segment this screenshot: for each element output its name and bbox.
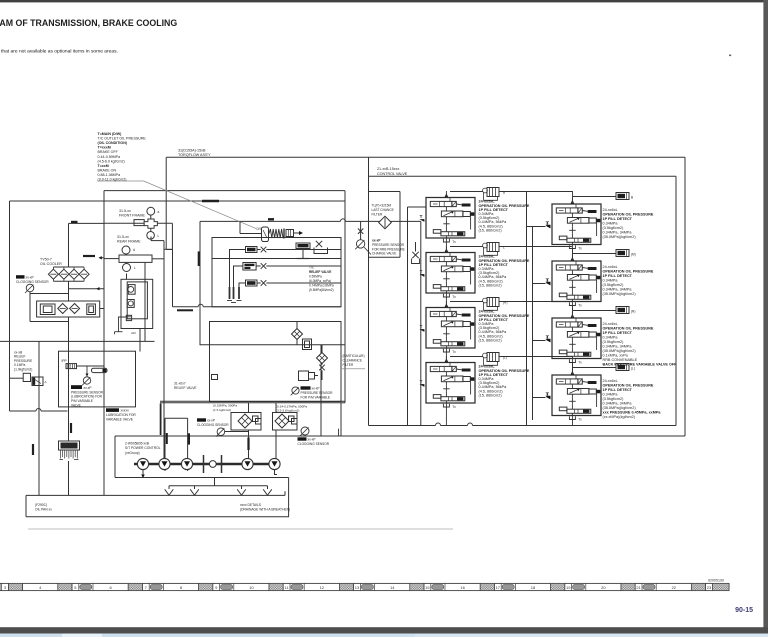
- pump P5 drain: [275, 470, 278, 475]
- svg-text:0.34MPa, 34MPa: 0.34MPa, 34MPa: [603, 402, 633, 406]
- svg-text:OPERATION OIL PRESSURE: OPERATION OIL PRESSURE: [603, 327, 654, 331]
- svg-text:T: T: [547, 277, 550, 282]
- inter-module drain: [572, 363, 574, 376]
- relief feed stub: [239, 221, 241, 233]
- arrow stub on main line: [101, 257, 104, 259]
- control valve inner top edge: [369, 175, 677, 177]
- supply header to rail: [450, 191, 487, 193]
- module supply arrow: [445, 358, 449, 362]
- svg-text:PRESSURE SENSOR: PRESSURE SENSOR: [301, 391, 334, 395]
- svg-text:T: T: [420, 324, 423, 329]
- svg-text:13: 13: [355, 585, 360, 590]
- tank funnel: [241, 486, 243, 489]
- rail tie: [533, 340, 546, 342]
- rail tie: [533, 397, 546, 399]
- svg-text:90-15: 90-15: [735, 607, 753, 614]
- clearance filter box: [210, 322, 342, 402]
- lubrication sensor box: [59, 351, 136, 407]
- svg-text:(15, 860/cm2): (15, 860/cm2): [479, 283, 503, 287]
- relief valve: [23, 373, 30, 381]
- section mark vertical: [70, 423, 72, 433]
- charge pressure gauge: [356, 240, 364, 248]
- module internal top feed: [575, 318, 577, 322]
- tank funnel: [267, 486, 269, 489]
- pump P3: [181, 458, 192, 469]
- module L4 drain to box bottom: [445, 407, 447, 426]
- supply header to rail: [450, 301, 487, 303]
- relief adjuster: [286, 230, 294, 237]
- left outer box: left edge: [9, 201, 11, 411]
- pilot damper/accumulator (inline): [483, 298, 488, 303]
- svg-text:OPERATION OIL PRESSURE: OPERATION OIL PRESSURE: [603, 384, 654, 388]
- charge sensor valve: [358, 229, 363, 234]
- svg-text:12: 12: [320, 585, 325, 590]
- supply header to rail: [450, 356, 487, 358]
- wire: rear frame feed: [104, 258, 119, 260]
- snubber cylinder: [92, 368, 108, 372]
- solenoid block: [299, 371, 309, 381]
- svg-text:(L): (L): [503, 356, 507, 360]
- pilot box left edge x200: [199, 221, 201, 345]
- svg-text:31.5-xx: 31.5-xx: [117, 235, 129, 239]
- svg-text:(3.5kgf/cm2): (3.5kgf/cm2): [603, 283, 625, 287]
- module drain bracket: [443, 349, 449, 352]
- svg-text:(PARTICULAR): (PARTICULAR): [343, 354, 365, 358]
- svg-text:FILTER: FILTER: [372, 213, 383, 217]
- shutoff valve with bracket: [316, 241, 322, 247]
- svg-text:(M): (M): [631, 253, 636, 257]
- control valve box left edge: [368, 157, 370, 425]
- pump P5: [269, 458, 280, 469]
- svg-text:14: 14: [390, 585, 395, 590]
- riser joins left header: [572, 362, 574, 368]
- pump P2 enclosure box: [165, 417, 188, 419]
- line priority to ipp box: [139, 329, 141, 352]
- drain check with bracket: [415, 242, 417, 252]
- svg-text:T: T: [547, 334, 550, 339]
- pump P4: [242, 458, 253, 469]
- rear frame drain link: [152, 258, 164, 260]
- section mark: [188, 433, 190, 444]
- svg-text:OIL COOLER: OIL COOLER: [40, 262, 62, 266]
- pilot sub box: [212, 238, 341, 307]
- svg-text:T=xxM: T=xxM: [98, 164, 109, 168]
- module drain bracket: [569, 245, 575, 248]
- svg-text:B: B: [631, 196, 633, 200]
- svg-text:1P FILL DETECT: 1P FILL DETECT: [603, 217, 633, 221]
- leader polyline from note block: [98, 181, 257, 229]
- riser joins left header: [572, 305, 574, 311]
- wire crossover hump: [436, 423, 441, 426]
- svg-text:(R): (R): [631, 310, 635, 314]
- top window bar: [0, 0, 768, 2]
- svg-text:FOR P/M VARIABLE: FOR P/M VARIABLE: [301, 396, 331, 400]
- svg-text:(1.5 kgf/cm2): (1.5 kgf/cm2): [213, 408, 231, 412]
- supply header to damper: [573, 253, 617, 255]
- svg-text:(LUBRICATION) FOR: (LUBRICATION) FOR: [71, 395, 103, 399]
- tank funnel: [194, 486, 196, 489]
- svg-text:(OIL CONDITION): (OIL CONDITION): [98, 141, 128, 145]
- svg-text:(xxGroup): (xxGroup): [125, 451, 140, 455]
- sensor junction lines: [29, 292, 31, 294]
- clearance filter drop x321: [320, 345, 322, 436]
- svg-text:RAM OF TRANSMISSION, BRAKE COO: RAM OF TRANSMISSION, BRAKE COOLING: [0, 18, 177, 28]
- bottom taskbar strip: [0, 634, 768, 637]
- svg-text:CLEARANCE: CLEARANCE: [343, 359, 363, 363]
- svg-text:T=xxxM: T=xxxM: [98, 146, 111, 150]
- section mark y310: [177, 309, 193, 311]
- svg-text:L: L: [134, 266, 136, 270]
- control valve outer right edge: [684, 157, 686, 436]
- svg-text:FILTER: FILTER: [343, 363, 354, 367]
- rail tie row1: [527, 226, 533, 228]
- svg-text:23: 23: [707, 585, 712, 590]
- svg-text:FRONT FRAME: FRONT FRAME: [119, 214, 145, 218]
- pilot damper/accumulator (inline): [483, 243, 488, 248]
- svg-text:TY50-7: TY50-7: [40, 258, 52, 262]
- svg-text:LUBRICATION FOR: LUBRICATION FOR: [106, 413, 136, 417]
- svg-text:a: a: [158, 210, 160, 214]
- priority valve element 1: [128, 285, 135, 295]
- svg-text:24-xx6xL: 24-xx6xL: [603, 379, 618, 383]
- priority valve element 2: [127, 300, 134, 308]
- svg-text:T: T: [420, 379, 423, 384]
- control valve inner right edge: [675, 176, 677, 425]
- torqflow supply drop x166: [165, 157, 167, 249]
- svg-text:0.34MPa: 0.34MPa: [603, 222, 619, 226]
- svg-text:CLOGGING SENSOR: CLOGGING SENSOR: [16, 280, 49, 284]
- module internal top feed: [575, 204, 577, 208]
- strainer drop x68.5: [68, 281, 70, 301]
- drawing scale ruler: [0, 583, 729, 590]
- svg-text:A: A: [45, 380, 47, 384]
- priority valve drain: [119, 317, 127, 332]
- module internal top feed: [575, 261, 577, 265]
- module drain bracket: [443, 239, 449, 242]
- vertical line x164 (front frame drain): [163, 241, 165, 459]
- section mark: [83, 255, 95, 257]
- svg-text:(35.0MPa)(kgf/cm2): (35.0MPa)(kgf/cm2): [603, 235, 637, 239]
- module supply arrow: [445, 248, 449, 252]
- module supply arrow: [571, 200, 575, 204]
- riser joins left header: [572, 248, 574, 254]
- svg-text:(15, 860/cm2): (15, 860/cm2): [479, 228, 503, 232]
- wire: pilot rail top line y221: [200, 220, 340, 222]
- module drain bracket: [443, 404, 449, 407]
- svg-text:2-W905B05-xxB: 2-W905B05-xxB: [125, 442, 150, 446]
- mid rail B x532.5: [532, 227, 534, 421]
- svg-text:0.34MPa: 0.34MPa: [603, 336, 619, 340]
- valve module module L2: [426, 253, 475, 294]
- pilot damper/accumulator: [616, 250, 629, 257]
- svg-text:LAST CHANCE: LAST CHANCE: [372, 208, 394, 212]
- front frame drain link: [150, 237, 152, 241]
- scan speck: [729, 55, 731, 57]
- svg-text:xxxx DETAILS: xxxx DETAILS: [240, 503, 262, 507]
- right scrollbar strip: [763, 0, 768, 632]
- svg-text:(3.5-3.8 kgf/cm2): (3.5-3.8 kgf/cm2): [276, 408, 299, 412]
- svg-text:(4.5-6.0 kgf/cm2): (4.5-6.0 kgf/cm2): [98, 159, 125, 163]
- bottom dark bar: [0, 627, 768, 633]
- svg-text:(3.5kgf/cm2): (3.5kgf/cm2): [603, 340, 625, 344]
- svg-text:BACK PRESSURE VARIABLE VALVE O: BACK PRESSURE VARIABLE VALVE OFF: [603, 363, 678, 367]
- svg-text:RRB CONVENABLE: RRB CONVENABLE: [603, 358, 638, 362]
- svg-text:Tx: Tx: [452, 405, 456, 409]
- svg-text:RELIEF VALVE: RELIEF VALVE: [309, 270, 331, 274]
- svg-text:24-xx6xL: 24-xx6xL: [603, 265, 618, 269]
- inter-module drain: [572, 249, 574, 262]
- svg-text:(DRAINAGE WITH A BREATHER): (DRAINAGE WITH A BREATHER): [240, 508, 290, 512]
- svg-text:BRAKE OFF: BRAKE OFF: [98, 150, 119, 154]
- svg-text:T: T: [420, 214, 423, 219]
- valve module module R3: [552, 318, 601, 359]
- svg-text:TL(P)+3215M: TL(P)+3215M: [372, 204, 392, 208]
- priority valve element 3: [126, 315, 131, 320]
- clogging sensor label (cooler): [16, 275, 25, 278]
- svg-text:that are not available as opti: that are not available as optional items…: [1, 49, 118, 55]
- middle box right edge x345: [344, 191, 346, 403]
- pilot damper/accumulator (inline): [483, 353, 488, 358]
- tank funnel: [168, 486, 170, 489]
- svg-text:(3.5kgf/cm2): (3.5kgf/cm2): [603, 397, 625, 401]
- svg-text:VALVE: VALVE: [71, 404, 81, 408]
- port label box 3: [246, 280, 258, 286]
- engine coupling: [203, 455, 205, 473]
- collector line y341.4: [0, 340, 155, 342]
- supply header to damper: [573, 310, 617, 312]
- svg-text:21: 21: [636, 585, 641, 590]
- svg-text:Tx: Tx: [578, 360, 582, 364]
- svg-text:(6.0MPa, xxPa): (6.0MPa, xxPa): [309, 279, 331, 283]
- module internal top feed: [449, 253, 451, 257]
- svg-text:OPERATION OIL PRESSURE: OPERATION OIL PRESSURE: [603, 270, 654, 274]
- svg-text:xx-xP: xx-xP: [372, 239, 381, 243]
- section mark vertical: [32, 444, 34, 455]
- svg-text:(9.0-11.0 kgf/cm2): (9.0-11.0 kgf/cm2): [98, 178, 127, 182]
- rear frame brake assembly: [122, 246, 130, 254]
- svg-text:31(D155A)-15xB: 31(D155A)-15xB: [178, 149, 206, 153]
- svg-text:T: T: [547, 220, 550, 225]
- supply header to rail: [450, 246, 487, 248]
- svg-text:1P FILL DETECT: 1P FILL DETECT: [603, 331, 633, 335]
- relief feed line: [240, 233, 262, 235]
- wire: control valve outer box bottom: [321, 435, 685, 437]
- svg-text:(15, 860/cm2): (15, 860/cm2): [479, 393, 503, 397]
- valve module module R4: [552, 375, 601, 416]
- cooler feed line from front-frame branch: [69, 222, 105, 224]
- wire: control valve inner box bottom: [369, 425, 436, 427]
- svg-text:22: 22: [672, 585, 677, 590]
- svg-text:(3.5kgf/cm2): (3.5kgf/cm2): [603, 226, 625, 230]
- module drain bracket: [443, 294, 449, 297]
- relief spring: [269, 229, 284, 238]
- filter risers: [248, 403, 250, 413]
- section mark y219: [268, 218, 274, 220]
- vertical line x172.5: [172, 249, 174, 306]
- small block in clearance box: [212, 375, 218, 380]
- svg-text:(5.5MPa(84/cm2): (5.5MPa(84/cm2): [309, 288, 334, 292]
- svg-text:0.34MPa: 0.34MPa: [603, 279, 619, 283]
- svg-text:1P FILL DETECT: 1P FILL DETECT: [603, 274, 633, 278]
- section mark above cooler feed: [71, 221, 78, 223]
- valve module module R2: [552, 261, 601, 302]
- oil pan outline: [25, 495, 27, 516]
- main filter 2 box: [273, 413, 298, 431]
- svg-text:REAR FRAME: REAR FRAME: [117, 240, 141, 244]
- module supply arrow: [445, 303, 449, 307]
- svg-text:S/T POWER CONTROL: S/T POWER CONTROL: [125, 446, 161, 450]
- clogging sensor gauge: [26, 284, 34, 292]
- svg-text:20: 20: [601, 585, 606, 590]
- drain manifold: [169, 485, 268, 487]
- oil pan right edge: [288, 478, 290, 517]
- module drain bracket: [569, 359, 575, 362]
- svg-text:TORQFLOW ASS'Y: TORQFLOW ASS'Y: [178, 153, 211, 157]
- svg-text:(R): (R): [503, 301, 507, 305]
- svg-text:92005190: 92005190: [708, 579, 724, 583]
- svg-text:T=MAIN (D/W): T=MAIN (D/W): [98, 132, 123, 136]
- inter-module drain: [445, 297, 447, 308]
- svg-text:(15, 860/cm2): (15, 860/cm2): [479, 338, 503, 342]
- section mark on left box top line: [202, 200, 219, 203]
- left rail x420.8: [420, 221, 422, 425]
- charge sensor stem: [360, 221, 362, 239]
- module supply arrow: [571, 371, 575, 375]
- svg-text:T/C: T/C: [309, 266, 315, 270]
- svg-text:24-xx6xL: 24-xx6xL: [603, 322, 618, 326]
- svg-text:T: T: [420, 269, 423, 274]
- svg-text:0.34MPa, 34MPa: 0.34MPa, 34MPa: [603, 231, 633, 235]
- clearance filter 1: [292, 329, 303, 340]
- test port plug: [296, 243, 310, 249]
- drain line x39 to pan: [38, 341, 40, 495]
- pump P2: [159, 458, 170, 469]
- faint base line: [28, 528, 453, 530]
- supply header to damper: [573, 367, 617, 369]
- svg-text:Tx: Tx: [578, 417, 582, 421]
- wire: clearance filter line y345: [200, 344, 345, 346]
- svg-text:31.5-xx: 31.5-xx: [119, 209, 131, 213]
- pump P1: [137, 458, 148, 469]
- svg-text:xxx PRESSURE 0.45MPa, xxMPa: xxx PRESSURE 0.45MPa, xxMPa: [603, 411, 662, 415]
- svg-text:T: T: [547, 391, 550, 396]
- left outer box: bottom edge with crossover: [10, 410, 37, 412]
- svg-text:(F290C): (F290C): [35, 503, 47, 507]
- module drain bracket: [569, 302, 575, 305]
- last chance filter sub box: [369, 191, 401, 193]
- wire: middle box top edge: [104, 190, 345, 192]
- module internal top feed: [449, 198, 451, 202]
- svg-text:0.34MPa: 0.34MPa: [603, 393, 619, 397]
- riser joins left header: [572, 191, 574, 197]
- wire crossover hump: [198, 304, 203, 307]
- pump P1 drain: [142, 470, 144, 476]
- svg-text:OPERATION OIL PRESSURE: OPERATION OIL PRESSURE: [603, 213, 654, 217]
- oil pan top edge: [26, 494, 285, 496]
- svg-text:Tx: Tx: [452, 240, 456, 244]
- clearance filter 2: [317, 353, 328, 364]
- valve module module L4: [426, 363, 475, 404]
- wire: y306 line with valves: [173, 306, 199, 308]
- wire crossover hump: [341, 219, 346, 222]
- wire: feed drop to thermo line: [171, 223, 173, 249]
- svg-text:CLOGGING SENSOR: CLOGGING SENSOR: [298, 442, 330, 446]
- svg-text:(1.0kgf/cm2): (1.0kgf/cm2): [14, 367, 32, 371]
- svg-text:L: L: [503, 246, 505, 250]
- wire: left box top edge: [10, 200, 346, 202]
- damper orifice: [66, 364, 77, 369]
- torque converter relief valve: [262, 227, 269, 242]
- svg-text:21-xxB-15xxx: 21-xxB-15xxx: [377, 167, 399, 171]
- svg-text:0.34MPa, 34MPa: 0.34MPa, 34MPa: [603, 288, 633, 292]
- svg-text:16: 16: [460, 585, 465, 590]
- priority valve box: [121, 279, 153, 328]
- svg-text:19: 19: [566, 585, 571, 590]
- sensor text with blob: [71, 385, 82, 389]
- drain bus bars: [230, 250, 246, 300]
- svg-text:OIL PAN xx: OIL PAN xx: [35, 508, 52, 512]
- svg-text:1P FILL DETECT: 1P FILL DETECT: [603, 388, 633, 392]
- ruler bar outline: [0, 583, 729, 590]
- svg-text:CONTROL VALVE: CONTROL VALVE: [377, 172, 408, 176]
- svg-text:IPP: IPP: [62, 359, 67, 363]
- svg-text:PRESSURE SENSOR: PRESSURE SENSOR: [71, 390, 104, 394]
- pilot damper/accumulator: [616, 307, 629, 314]
- section mark x198.7: [198, 251, 200, 266]
- line rear frame to priority valve: [126, 274, 128, 280]
- svg-text:0.34MPa, 34MPa: 0.34MPa, 34MPa: [603, 345, 633, 349]
- svg-text:15: 15: [425, 585, 430, 590]
- inter-module drain: [445, 352, 447, 363]
- svg-text:24-xx6xL: 24-xx6xL: [603, 208, 618, 212]
- inter-module drain: [445, 242, 447, 253]
- supply header to damper: [573, 196, 617, 198]
- section mark x160.6: [160, 404, 162, 436]
- port label box TM: [246, 247, 258, 253]
- pilot sub box divider: [212, 258, 341, 260]
- bypass loop to tank line: [29, 294, 31, 322]
- svg-text:CHARGE VALVE: CHARGE VALVE: [372, 252, 396, 256]
- bypass check valve assembly: [37, 301, 100, 317]
- last chance filter: [379, 216, 392, 229]
- cooler return line with arrow: [69, 288, 105, 290]
- svg-text:xx-xP: xx-xP: [207, 418, 215, 422]
- suction strainer: [59, 441, 80, 450]
- vertical main line x104: [103, 191, 105, 496]
- pilot damper/accumulator: [616, 193, 629, 200]
- module drain bracket: [569, 416, 575, 419]
- section mark: [166, 433, 168, 444]
- svg-text:0.1xMPa, xxPa: 0.1xMPa, xxPa: [603, 354, 629, 358]
- module internal top feed: [449, 308, 451, 312]
- svg-text:xx-xP: xx-xP: [84, 386, 92, 390]
- pump drive shaft: [134, 463, 280, 465]
- module internal top feed: [449, 363, 451, 367]
- wire: torqflow assy top line: [166, 156, 685, 158]
- wire: front frame feed: [104, 222, 172, 224]
- svg-text:RELIEF VALVE: RELIEF VALVE: [174, 386, 197, 390]
- module R4 drain to box bottom: [572, 420, 574, 426]
- rear frame drop x145: [144, 263, 146, 342]
- svg-text:xxxxx: xxxxx: [121, 409, 130, 413]
- inter-module drain: [572, 306, 574, 319]
- port label box 2: [243, 263, 256, 271]
- pump box: [115, 435, 321, 437]
- svg-text:0.74MPa,0.8MPa: 0.74MPa,0.8MPa: [309, 284, 334, 288]
- svg-text:B: B: [503, 191, 505, 195]
- pilot damper/accumulator: [616, 364, 629, 371]
- front frame brake assembly: [147, 207, 155, 215]
